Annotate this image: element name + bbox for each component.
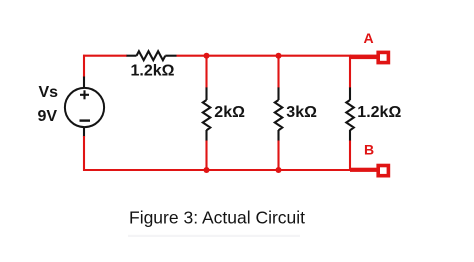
wire: branch 2 vertical top (277, 56, 279, 88)
wire: branch 2 vertical bottom (277, 141, 279, 171)
terminal B square (378, 166, 388, 176)
wire: right branch vertical bottom (349, 141, 351, 171)
wire: left vertical (top) (83, 55, 85, 78)
junction dot top node 1 (204, 53, 210, 59)
resistor 3k (vertical) (275, 87, 283, 141)
wire: top horizontal (R1 to node A corner) (177, 55, 351, 57)
svg-text:Figure 3: Actual Circuit: Figure 3: Actual Circuit (129, 208, 305, 228)
svg-text:9V: 9V (38, 108, 58, 125)
terminal B lead (thick) (350, 168, 378, 172)
svg-text:Vs: Vs (39, 84, 59, 101)
faint artifact streak (128, 235, 300, 237)
junction dot bottom node 1 (204, 167, 210, 173)
wire: bottom horizontal (83, 169, 351, 171)
terminal A square (378, 52, 388, 62)
label 9V (38, 108, 58, 125)
label 2kOhm (214, 104, 245, 121)
node label B (364, 142, 374, 158)
wire: right branch vertical top (349, 56, 351, 88)
label load 1.2kOhm (357, 104, 401, 121)
wire: top-left horizontal (source to R1) (83, 55, 127, 57)
label Vs (39, 84, 59, 101)
label 3kOhm (286, 104, 317, 121)
svg-text:1.2kΩ: 1.2kΩ (357, 104, 401, 121)
wire: branch 1 vertical bottom (205, 141, 207, 171)
svg-text:1.2kΩ: 1.2kΩ (131, 63, 175, 80)
wire: branch 1 vertical top (205, 56, 207, 88)
junction dot top node 2 (276, 53, 282, 59)
terminal A lead (thick) (350, 55, 378, 60)
svg-text:2kΩ: 2kΩ (214, 104, 245, 121)
caption (129, 208, 305, 228)
svg-text:3kΩ: 3kΩ (286, 104, 317, 121)
resistor 2k (vertical) (203, 87, 211, 141)
wire: left vertical (bottom) (83, 136, 85, 171)
resistor 1.2k load (vertical) (346, 87, 354, 141)
label R1 value 1.2kOhm (131, 63, 175, 80)
junction dot bottom node 2 (276, 167, 282, 173)
svg-text:B: B (364, 142, 374, 158)
resistor R1 1.2k (horizontal) (127, 51, 177, 60)
node label A (364, 30, 374, 46)
svg-text:A: A (364, 30, 374, 46)
voltage source Vs 9V (65, 77, 104, 137)
